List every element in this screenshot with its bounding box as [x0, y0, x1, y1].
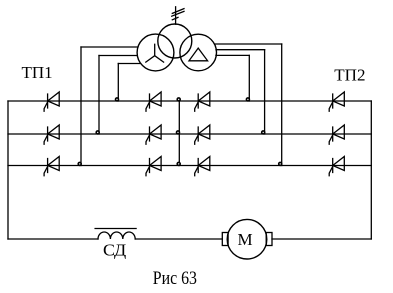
- wire: row 3 phase line: [8, 165, 371, 167]
- wire: left dc bus: [7, 101, 9, 239]
- junction node: center bus / row 3: [177, 162, 180, 165]
- thyristor VS12 (TP2 row 3): [329, 157, 344, 176]
- supply line to primary: [175, 7, 177, 24]
- thyristor VS4 (mid-left row 1): [146, 92, 161, 111]
- junction node: center bus / row 1: [177, 98, 180, 101]
- wire: bottom load line middle: [135, 238, 222, 240]
- star symbol inside secondary 1: [146, 44, 164, 62]
- wire: row 1 phase line: [8, 100, 371, 102]
- thyristor VS5 (mid-left row 2): [146, 125, 161, 144]
- junction node: star phase a / row 3: [78, 162, 81, 165]
- svg-text:СД: СД: [103, 240, 127, 259]
- thyristor VS11 (TP2 row 2): [329, 125, 344, 144]
- svg-text:ТП2: ТП2: [334, 66, 365, 85]
- thyristor VS1 (TP1 row 1): [44, 92, 59, 111]
- thyristor VS6 (mid-left row 3): [146, 157, 161, 176]
- wire: center cathode bus: [178, 101, 180, 166]
- svg-text:М: М: [238, 230, 253, 249]
- wire: bottom load line left: [8, 238, 98, 240]
- transformer T1 primary winding circle: [158, 24, 192, 58]
- thyristor VS10 (TP2 row 1): [329, 92, 344, 111]
- smoothing reactor SD winding: [98, 232, 135, 239]
- wire: right dc bus: [370, 101, 372, 239]
- junction node: delta phase c / row 1: [246, 98, 249, 101]
- wire: star phase c horizontal: [118, 63, 140, 65]
- wire: bottom load line right: [272, 238, 371, 240]
- thyristor VS3 (TP1 row 3): [44, 157, 59, 176]
- smoothing reactor SD core bar: [95, 228, 136, 230]
- wire: delta phase b horizontal: [216, 49, 265, 51]
- junction node: center bus / row 2: [177, 131, 180, 134]
- wire: star phase b horizontal: [99, 55, 137, 57]
- thyristor VS8 (mid-right row 2): [195, 125, 210, 144]
- motor M left brush: [222, 233, 228, 246]
- svg-text:Рис 63: Рис 63: [153, 268, 197, 289]
- wire: star phase c drop to row 1: [117, 64, 119, 102]
- thyristor VS2 (TP1 row 2): [44, 125, 59, 144]
- wire: delta phase c drop to row 1: [248, 55, 250, 101]
- motor M right brush: [266, 233, 272, 246]
- junction node: star phase b / row 2: [96, 131, 99, 134]
- three-phase hatch tick 2: [172, 11, 184, 16]
- motor M armature circle: [227, 219, 267, 259]
- wire: star phase b drop to row 2: [98, 56, 100, 135]
- three-phase hatch tick 3: [172, 17, 178, 19]
- wire: row 2 phase line: [8, 133, 371, 135]
- transformer T1 star secondary winding circle: [137, 34, 174, 71]
- svg-text:ТП1: ТП1: [22, 63, 53, 82]
- thyristor VS9 (mid-right row 3): [195, 157, 210, 176]
- junction node: delta phase b / row 2: [262, 131, 265, 134]
- wire: star phase a horizontal: [81, 46, 138, 48]
- thyristor VS7 (mid-right row 1): [195, 92, 210, 111]
- wire: delta phase a drop to row 3: [281, 44, 283, 166]
- wire: delta phase c horizontal: [216, 54, 249, 56]
- transformer T1 delta secondary winding circle: [180, 34, 217, 71]
- junction node: delta phase a / row 3: [279, 162, 282, 165]
- delta symbol inside secondary 2: [189, 48, 208, 61]
- wire: delta phase a horizontal: [215, 43, 282, 45]
- junction node: star phase c / row 1: [116, 98, 119, 101]
- three-phase hatch tick 1: [172, 9, 184, 14]
- wire: delta phase b drop to row 2: [264, 50, 266, 134]
- wire: star phase a drop to row 3: [80, 47, 82, 166]
